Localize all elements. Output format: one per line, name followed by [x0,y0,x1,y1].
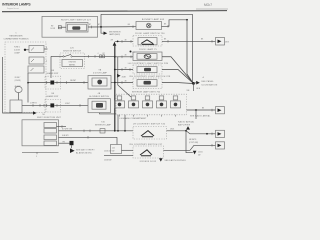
passenger compartment fusebox [5,42,46,113]
wire row P left [28,82,50,84]
svg-text:(C1037): (C1037) [14,50,20,52]
lamp unit 5 [171,96,181,108]
wire ground drop [186,131,193,153]
junction dot B7 [130,51,132,53]
svg-text:B7: B7 [98,24,100,26]
fuse F2 [29,57,44,64]
LH door switch [133,127,167,140]
wire ignition to bus [72,55,115,57]
svg-text:4: 4 [98,53,99,55]
svg-text:2038: 2038 [122,76,126,78]
arrow see alarm [70,148,75,153]
wire LH lamp diagonal to node [162,70,193,84]
MFU stub 1 [57,126,67,128]
svg-text:LH COURTESY SWITCH 746: LH COURTESY SWITCH 746 [133,124,166,126]
svg-text:10B: 10B [51,70,54,72]
svg-text:BT: BT [89,24,91,26]
arrow see panel illumination [194,82,197,85]
svg-text:ROOF LAMP SWITCH 756: ROOF LAMP SWITCH 756 [135,32,165,35]
svg-text:IGNITION SWITCH: IGNITION SWITCH [63,50,81,52]
MFU sub box 1 [44,123,57,128]
svg-text:(C1179 4W): (C1179 4W) [189,142,198,144]
tick [130,40,132,43]
MFU sub box 2 [44,129,57,133]
wire RH switch to terminal [164,145,216,150]
svg-text:SEE RADIO AERIAL: SEE RADIO AERIAL [190,114,211,117]
bonnet lamp 408 [136,22,162,30]
lamp unit 4 [157,96,167,108]
svg-text:5: 5 [16,33,17,35]
svg-text:9B WHT: 9B WHT [70,80,76,82]
tick C2 [132,25,134,28]
tick [88,55,90,58]
node junction on roof switch wire [100,26,102,28]
svg-text:SEE EARTH FIXINGS: SEE EARTH FIXINGS [165,159,187,162]
terminal box F [211,144,213,147]
wire row F from MFU [59,136,118,138]
lamp unit 2 [129,96,139,108]
wire row Q right [54,104,88,106]
svg-text:4B SMTS: 4B SMTS [189,139,197,141]
tick [167,40,169,43]
svg-text:226: 226 [70,47,74,49]
door switch 756 [133,36,162,47]
MFU sub box 3 [44,135,57,140]
svg-text:LH COURTESY LIGHT SWITCH 22B: LH COURTESY LIGHT SWITCH 22B [128,63,169,65]
tick [94,55,96,58]
svg-text:ALARM (MGR): ALARM (MGR) [76,152,92,155]
node stub down [193,83,195,91]
wire row Q left [22,104,50,106]
svg-text:NO WHT GRN: NO WHT GRN [62,128,72,130]
lamp unit 1 [115,96,125,108]
lamp unit 3 [143,96,153,108]
wire roof switch left stub [58,26,66,28]
svg-text:C0551: C0551 [198,152,203,154]
svg-text:C0548 4W: C0548 4W [104,159,112,161]
vertical taps from cluster [117,115,119,131]
arrow wire left [33,111,37,114]
svg-text:4 DOOR LAMP: 4 DOOR LAMP [93,72,108,75]
multi function unit [22,120,59,146]
fuse F3 [28,66,44,73]
svg-text:SEE PANEL: SEE PANEL [201,80,214,83]
terminal box A [216,38,225,46]
svg-text:10B: 10B [51,93,54,95]
roof switch 227 [66,23,88,33]
wire U1 to bus [111,82,115,84]
wire corner down from ignition feed [50,56,52,78]
svg-text:SLB GRY: SLB GRY [62,135,69,137]
arrow see interior lamps [104,32,108,35]
svg-text:4B: 4B [125,39,127,41]
PB joint black square [70,141,74,145]
wire into ignition [51,55,63,57]
wire bonnet lamp right [162,20,188,27]
wire stub [26,49,29,51]
terminal box T [211,109,213,112]
wire bus to 75 [115,56,133,58]
svg-text:746: 746 [101,122,105,124]
svg-text:SEE ANTI THEFT: SEE ANTI THEFT [76,148,95,151]
wire U2 bottom exit [100,113,117,114]
main bus wire [114,46,116,131]
ground triangle under RH switch [159,158,163,161]
lamp cluster box [116,94,187,115]
tick C1 [91,26,93,29]
svg-text:ROOF LIGHT SWITCH 227: ROOF LIGHT SWITCH 227 [61,20,92,22]
svg-text:5: 5 [36,156,37,158]
wire PB drop [71,145,73,148]
svg-text:MG•7: MG•7 [204,3,212,7]
wire cluster to terminal T [187,109,216,111]
svg-text:18B: 18B [187,90,190,92]
svg-text:AMPLIFIER: AMPLIFIER [178,123,191,126]
wire 196 drop [195,110,197,119]
junction dots row E [114,130,116,132]
arrow 2038 from bus [117,74,121,78]
MFU sub box 4 [44,141,57,145]
wire roof switch output [88,26,136,28]
page number underline [196,8,228,10]
wire vertical 187 to node [187,20,193,83]
tick [121,40,123,43]
wire top net L1 [101,13,193,15]
wire node up to L1 [100,14,102,27]
ground triangle right [193,151,197,155]
wire vertical 192.5 to node [192,14,194,83]
svg-text:4: 4 [46,47,47,49]
wire RH lamp to node [162,83,193,84]
svg-text:LUGGAGE COMPARTMENT: LUGGAGE COMPARTMENT [120,117,148,120]
unit stubs [120,115,176,117]
junction dot [117,41,119,43]
bus top arrow [113,42,117,46]
svg-text:SEE INTERIOR: SEE INTERIOR [109,31,121,33]
wire bus to LH lamp [115,69,133,71]
RH door switch [133,146,164,158]
svg-text:FUSE 7: FUSE 7 [15,77,21,79]
svg-text:MULTI FUNCTION UNIT: MULTI FUNCTION UNIT [37,117,62,119]
svg-text:(C1038): (C1038) [15,80,21,82]
wire row E to terminal [167,131,216,134]
svg-text:DRIVERS DOOR: DRIVERS DOOR [140,161,157,163]
glovebox lamp unit U2 [88,99,111,113]
wire 75 right diagonal to node [162,57,193,84]
wire fuse1 stub [44,48,48,50]
tick [167,25,169,28]
svg-text:BONNET LAMP 408: BONNET LAMP 408 [142,18,165,21]
tick 5 [36,152,38,154]
svg-text:C WHT B: C WHT B [30,103,37,105]
svg-text:GLOVEBOX SWITCH: GLOVEBOX SWITCH [89,96,110,98]
wire connector to RH switch [122,149,134,151]
wire MFU to PB joint [59,142,70,144]
courtesy light unit U1 [88,76,111,90]
wire node drop to arrow [101,27,104,33]
wire bus to RH lamp [115,82,133,84]
wire coil to row Q [18,93,20,100]
node star junction [192,82,195,85]
wire left edge drop [3,57,33,113]
svg-text:2: 2 [46,61,47,63]
svg-text:RADIO AERIAL: RADIO AERIAL [178,120,195,123]
svg-text:C05: C05 [112,147,115,149]
wire bus to 756 [115,40,133,42]
connector block C [111,145,122,154]
svg-text:INT: INT [51,25,54,27]
junction dot [24,49,26,51]
svg-text:4 WHT: 4 WHT [65,103,70,105]
svg-text:ROOF LAMP 75: ROOF LAMP 75 [139,48,157,51]
svg-text:PASSENGER: PASSENGER [9,35,23,38]
svg-text:BT: BT [103,53,105,55]
svg-text:INTERIOR LAMPS: INTERIOR LAMPS [2,3,31,7]
connector on row E [100,129,105,133]
svg-text:INTERIOR LAMP UNITS 760: INTERIOR LAMP UNITS 760 [132,90,161,93]
wire 756 to terminal [162,40,216,42]
svg-text:FUSE 2: FUSE 2 [14,47,20,49]
RH courtesy lamp [133,78,162,89]
MFU bottom rule [22,151,59,153]
svg-text:INTERIOR LAMP: INTERIOR LAMP [95,124,112,127]
svg-text:4B: 4B [125,67,127,69]
svg-text:IGNITION: IGNITION [69,62,77,64]
svg-text:COMPARTMENT FUSEBOX: COMPARTMENT FUSEBOX [3,38,29,41]
svg-text:4B: 4B [125,80,127,82]
bus branch diagonal to cluster [118,57,131,97]
svg-text:764: 764 [42,114,45,116]
node on vertical 187 [186,19,188,21]
terminal box E [211,133,213,136]
short wire [104,154,133,156]
roof lamp 75 [133,52,162,61]
LH courtesy lamp [133,65,162,74]
svg-text:BK B: BK B [197,88,201,90]
svg-text:RH COURTESY LIGHT SWITCH 228: RH COURTESY LIGHT SWITCH 228 [130,76,171,78]
header rule [2,11,227,12]
tick [211,40,213,43]
svg-text:48 B: 48 B [225,41,228,43]
wire junction row P [27,82,29,84]
roof console box 227 [42,16,98,37]
relay box [10,100,22,113]
svg-text:RH COURTESY SWITCH 747: RH COURTESY SWITCH 747 [130,144,163,146]
ignition switch 226 [60,53,85,69]
svg-text:4B: 4B [125,55,127,57]
header joint HJ1 [45,76,61,89]
ground triangle [186,126,190,129]
fuse F1 [29,46,44,53]
connector pair [100,55,102,58]
wire row E from MFU [59,130,134,132]
header joint HJ2 [45,100,61,113]
wire fusebox vertical feed [27,73,29,103]
svg-text:ILLUMINATION: ILLUMINATION [201,83,218,86]
wire row P right [54,82,88,84]
relay coil [15,86,22,92]
wire row F drop [116,137,118,144]
svg-text:C0545 4W: C0545 4W [104,151,112,153]
